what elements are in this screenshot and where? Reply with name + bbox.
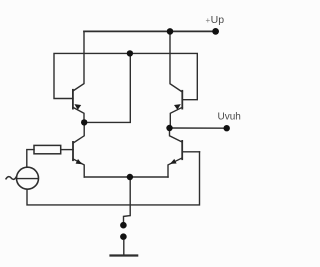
node: junction on base rail — [127, 50, 133, 56]
wire: resistor to signal source — [27, 150, 34, 168]
signal source V1 (AC) — [6, 167, 39, 189]
node: junction on emitter rail — [127, 174, 133, 180]
wire: tail down to current source — [124, 177, 131, 222]
node B (Q2 emitter / Q4 collector / output) — [166, 125, 172, 131]
current source I1 (two-circle symbol) — [120, 222, 127, 240]
wire: base rail of Q1/Q2 — [54, 53, 197, 99]
node: junction on +Up rail — [167, 28, 174, 35]
svg-text:+Up: +Up — [206, 14, 225, 26]
wire: current source to ground — [123, 240, 125, 255]
wire: output to Uvuh terminal — [170, 127, 227, 129]
ground — [111, 254, 138, 256]
terminal +Up — [212, 28, 219, 35]
node A (Q1 emitter / Q3 collector / diode tie) — [81, 119, 87, 125]
resistor R1 — [34, 145, 61, 153]
svg-text:Uvuh: Uvuh — [218, 112, 241, 123]
transistor Q2 (PNP, top-right) — [170, 31, 182, 128]
wire: source bottom return to Q4 base — [27, 152, 200, 205]
transistor Q1 (PNP, top-left) — [73, 31, 84, 122]
transistor Q4 (NPN, bottom-right) — [168, 128, 200, 177]
transistor Q3 (NPN, bottom-left) — [61, 122, 84, 177]
wire: emitter rail of Q3/Q4 — [84, 176, 168, 178]
wire: +Up supply rail — [84, 30, 216, 32]
terminal Uvuh — [224, 125, 230, 131]
wire: diode connection from node A up to base rail — [84, 53, 130, 122]
